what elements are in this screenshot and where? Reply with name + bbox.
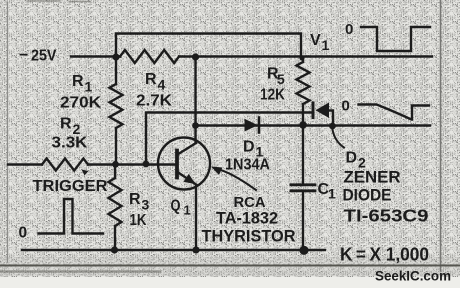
- svg-text:R: R: [72, 73, 84, 90]
- zener D2 cathode bar: [312, 103, 315, 118]
- wire top bypass: [116, 34, 301, 59]
- zener D2 anode lead: [329, 111, 333, 127]
- resistor R5 lead top: [302, 58, 304, 62]
- wire emitter vertical: [195, 185, 197, 250]
- svg-text:0: 0: [345, 21, 353, 38]
- transistor Q1 circle: [158, 138, 210, 190]
- svg-text:1N34A: 1N34A: [225, 157, 270, 174]
- svg-text:Q: Q: [171, 198, 181, 215]
- waveform output sawtooth: [359, 105, 430, 120]
- node junction R5/C1/output: [299, 121, 307, 129]
- svg-text:2.7K: 2.7K: [136, 93, 173, 110]
- border left: [7, 2, 9, 262]
- resistor R5: [297, 62, 310, 104]
- node junction collector/D1: [192, 122, 199, 129]
- node junction bottom/emitter: [192, 246, 199, 253]
- svg-text:K = X 1,000: K = X 1,000: [340, 245, 429, 265]
- wire bottom rail: [22, 249, 325, 251]
- svg-text:1: 1: [184, 203, 191, 218]
- node junction R5 top: [299, 55, 304, 60]
- border bottom smudge: [0, 270, 160, 273]
- wire R3 top lead: [114, 164, 116, 178]
- node junction base/feedback: [143, 161, 150, 168]
- leader arrowhead at Q1: [211, 167, 223, 176]
- capacitor C1 bottom lead: [302, 191, 304, 250]
- node junction base/R1: [112, 161, 119, 168]
- transistor Q1 base bar: [175, 151, 179, 178]
- svg-text:5: 5: [277, 71, 285, 87]
- svg-text:3: 3: [142, 197, 150, 213]
- resistor R1: [110, 84, 123, 128]
- wire collector vertical: [194, 58, 196, 143]
- wire R1 bottom lead: [115, 128, 117, 164]
- wire output line: [196, 124, 431, 126]
- transistor Q1 emitter arrowhead: [184, 174, 196, 185]
- leader to Q1 from RCA label: [217, 169, 256, 190]
- transistor Q1 collector diagonal: [178, 143, 197, 155]
- svg-text:D: D: [346, 150, 358, 167]
- trigger arrow mark: [82, 170, 89, 176]
- clean strip below border: [0, 277, 460, 288]
- transistor Q1 emitter diagonal: [178, 172, 197, 185]
- wire R1 top lead: [115, 58, 117, 84]
- wire R3 bottom lead: [114, 226, 116, 250]
- leader to D2: [333, 130, 345, 148]
- node junction zener anode: [329, 123, 336, 130]
- capacitor C1 top lead: [302, 125, 304, 184]
- node junction bottom/C1: [299, 246, 308, 255]
- svg-text:25V: 25V: [31, 48, 57, 65]
- svg-text:0: 0: [19, 225, 28, 242]
- svg-text:V: V: [310, 32, 321, 49]
- svg-text:1: 1: [328, 186, 336, 202]
- node junction R4 right: [192, 53, 199, 60]
- wire rail right of R4: [179, 55, 432, 57]
- svg-text:12K: 12K: [260, 87, 286, 104]
- svg-text:THYRISTOR: THYRISTOR: [202, 227, 296, 246]
- wire feedback line: [146, 113, 312, 165]
- svg-text:−: −: [19, 47, 28, 64]
- border right: [440, 0, 442, 271]
- svg-text:1: 1: [322, 37, 330, 53]
- diode D1 triangle: [245, 119, 258, 132]
- svg-text:TRIGGER: TRIGGER: [33, 178, 108, 195]
- svg-text:3.3K: 3.3K: [52, 135, 89, 152]
- resistor R3: [109, 178, 122, 226]
- svg-text:D: D: [243, 139, 255, 156]
- resistor R4: [120, 50, 179, 63]
- diode D1 cathode bar: [258, 118, 261, 133]
- node junction -25V/bypass: [112, 53, 119, 60]
- svg-text:270K: 270K: [60, 95, 101, 112]
- wire -25V rail left: [71, 55, 120, 57]
- bottom scan band: [0, 257, 460, 276]
- svg-text:DIODE: DIODE: [343, 186, 392, 205]
- svg-text:R: R: [60, 116, 72, 133]
- svg-text:ZENER: ZENER: [344, 169, 401, 187]
- waveform trigger pulse: [39, 199, 104, 234]
- wire base line right: [88, 163, 176, 165]
- svg-text:1: 1: [85, 79, 93, 95]
- svg-text:SeekIC.com: SeekIC.com: [375, 268, 451, 284]
- top edge specks: [28, 0, 90, 3]
- zener D2 triangle: [316, 103, 330, 119]
- waveform top-right: [361, 27, 430, 51]
- border bottom: [0, 265, 460, 267]
- wire base line left: [8, 163, 42, 165]
- capacitor C1 plates: [291, 183, 315, 186]
- resistor R2: [42, 159, 88, 171]
- svg-text:1K: 1K: [130, 212, 148, 229]
- svg-text:TA-1832: TA-1832: [216, 210, 278, 228]
- svg-text:4: 4: [158, 77, 166, 93]
- svg-text:TI-653C9: TI-653C9: [344, 206, 429, 226]
- svg-text:0: 0: [342, 98, 350, 115]
- node junction bottom/R3: [111, 246, 118, 253]
- svg-text:R: R: [145, 71, 157, 88]
- svg-text:R: R: [129, 191, 141, 208]
- wire R5 bottom lead: [302, 104, 304, 125]
